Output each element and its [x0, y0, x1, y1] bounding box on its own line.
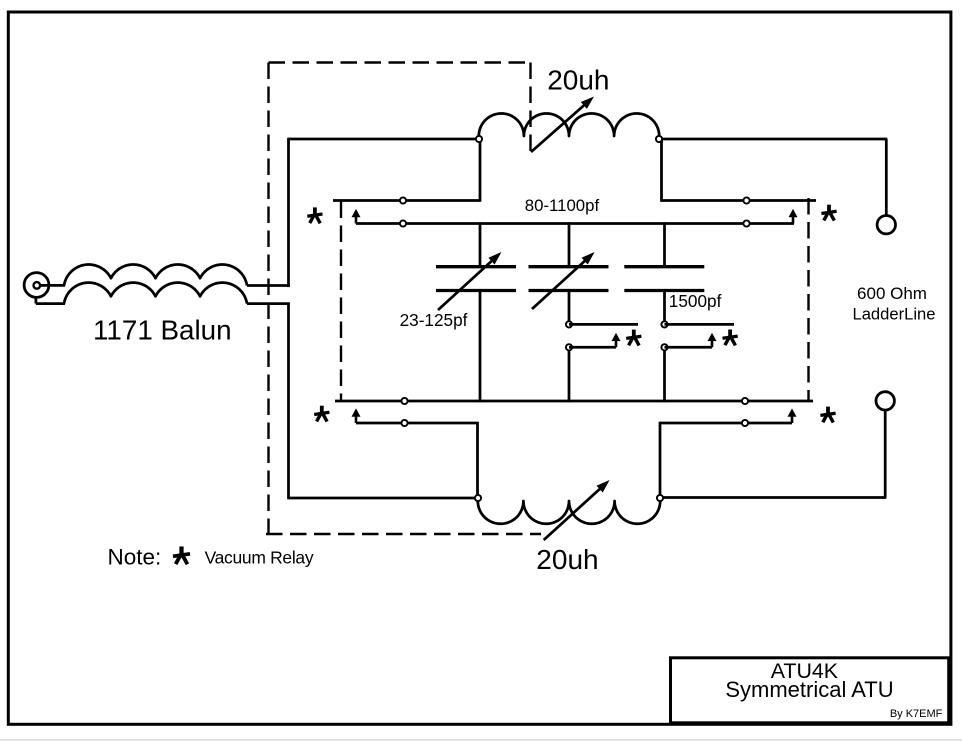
svg-text:1500pf: 1500pf: [669, 291, 722, 311]
svg-text:600 Ohm: 600 Ohm: [857, 284, 927, 303]
svg-text:1171 Balun: 1171 Balun: [93, 315, 232, 346]
svg-text:Note:: Note:: [108, 545, 162, 570]
svg-text:20uh: 20uh: [547, 65, 609, 96]
svg-text:By K7EMF: By K7EMF: [890, 708, 943, 720]
svg-text:23-125pf: 23-125pf: [400, 310, 468, 330]
svg-text:20uh: 20uh: [536, 544, 598, 575]
svg-text:80-1100pf: 80-1100pf: [525, 196, 600, 215]
svg-text:LadderLine: LadderLine: [852, 305, 935, 324]
svg-text:Vacuum Relay: Vacuum Relay: [205, 548, 314, 568]
svg-text:Symmetrical ATU: Symmetrical ATU: [725, 677, 893, 702]
